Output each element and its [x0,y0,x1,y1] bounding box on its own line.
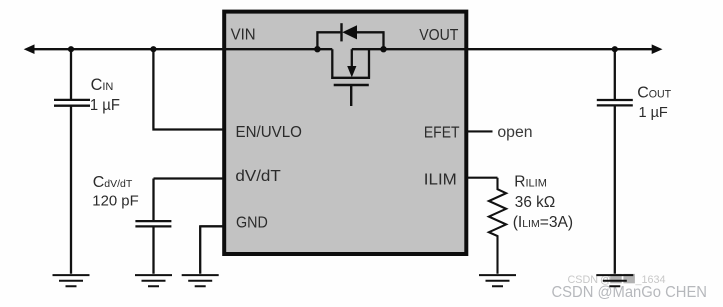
svg-text:EN/UVLO: EN/UVLO [236,124,302,141]
svg-text:36 kΩ: 36 kΩ [515,194,556,211]
svg-text:VOUT: VOUT [419,27,458,44]
svg-text:1 µF: 1 µF [90,97,120,114]
svg-text:CSDN @ManGo CHEN: CSDN @ManGo CHEN [552,284,708,301]
svg-text:(ILIM=3A): (ILIM=3A) [513,214,573,231]
svg-text:120 pF: 120 pF [92,192,138,209]
svg-text:VIN: VIN [231,27,256,44]
svg-text:dV/dT: dV/dT [235,168,281,185]
svg-text:1 µF: 1 µF [639,104,668,121]
svg-text:EFET: EFET [424,125,460,142]
svg-text:open: open [497,124,532,141]
svg-text:ILIM: ILIM [424,171,457,188]
svg-text:GND: GND [236,214,268,231]
